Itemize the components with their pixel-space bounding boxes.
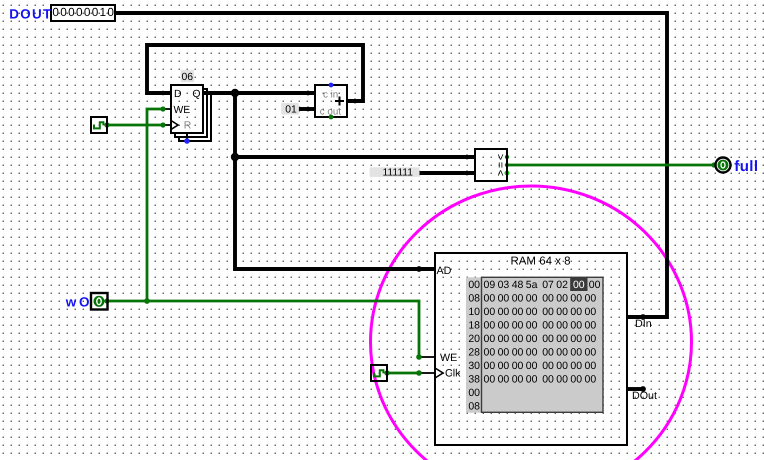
pin dot adder in B: [306, 107, 311, 112]
pin dot RAM AD: [416, 266, 422, 272]
clock C2: [371, 365, 387, 381]
pin dot comparator lt (high): [505, 171, 510, 176]
svg-text:5a: 5a: [526, 279, 538, 291]
svg-text:00: 00: [526, 347, 538, 359]
svg-text:w: w: [65, 295, 77, 310]
svg-text:38: 38: [468, 374, 480, 386]
svg-text:00: 00: [542, 374, 554, 386]
register R1 (write counter): [171, 85, 211, 144]
stub RAM WE: [419, 356, 435, 358]
wire w0 to RAM WE: [107, 301, 419, 357]
svg-text:20: 20: [468, 333, 480, 345]
pin dot comparator A: [465, 155, 470, 160]
svg-text:00: 00: [570, 306, 582, 318]
pin dot full in: [711, 162, 716, 167]
pin dot clock C1 out: [104, 122, 109, 127]
svg-text:00: 00: [498, 306, 510, 318]
svg-text:00: 00: [570, 374, 582, 386]
junction comparator feed: [231, 153, 239, 161]
pin dot register WE in: [160, 106, 165, 111]
svg-text:00: 00: [512, 347, 524, 359]
svg-text:00: 00: [484, 293, 496, 305]
svg-text:DOut: DOut: [632, 390, 657, 402]
adder U2: [315, 83, 347, 120]
svg-text:00: 00: [542, 306, 554, 318]
svg-text:00: 00: [512, 360, 524, 372]
svg-text:00: 00: [585, 333, 597, 345]
svg-text:00: 00: [585, 293, 597, 305]
svg-text:00: 00: [468, 387, 480, 399]
svg-text:00: 00: [556, 360, 568, 372]
input pin w0: [91, 293, 108, 310]
svg-text:01: 01: [285, 104, 297, 115]
svg-text:RAM 64 x 8: RAM 64 x 8: [510, 256, 570, 268]
stub register clock: [163, 124, 171, 126]
svg-text:00: 00: [570, 320, 582, 332]
svg-text:WE: WE: [174, 105, 191, 116]
svg-text:00: 00: [556, 320, 568, 332]
svg-text:00: 00: [484, 306, 496, 318]
constant 01: [281, 103, 299, 115]
svg-text:00: 00: [512, 320, 524, 332]
svg-text:00: 00: [512, 293, 524, 305]
wire w0 branch to register WE: [147, 109, 163, 301]
svg-text:00: 00: [556, 293, 568, 305]
svg-text:00: 00: [556, 333, 568, 345]
pin dot RAM WE in: [416, 354, 422, 360]
svg-text:00: 00: [556, 306, 568, 318]
svg-text:00: 00: [526, 360, 538, 372]
pin dot clock C2 out: [384, 370, 389, 375]
svg-text:00: 00: [498, 347, 510, 359]
pin dot comparator gt: [505, 155, 509, 159]
svg-text:O: O: [79, 295, 90, 310]
svg-text:00: 00: [573, 279, 585, 291]
wire comparator = to full pin: [507, 164, 714, 167]
RAM memory contents table: [466, 277, 603, 412]
svg-text:03: 03: [498, 279, 510, 291]
comparator U3: [475, 149, 507, 181]
svg-text:00: 00: [542, 333, 554, 345]
wire to comparator input A: [235, 155, 475, 159]
svg-text:00: 00: [585, 320, 597, 332]
wire clock C1 to register clock: [107, 124, 163, 127]
stub register WE: [163, 108, 171, 110]
svg-text:WE: WE: [440, 352, 457, 364]
svg-text:28: 28: [468, 347, 480, 359]
junction Q/comparator: [231, 89, 239, 97]
svg-text:00: 00: [498, 320, 510, 332]
svg-text:00: 00: [526, 374, 538, 386]
svg-text:00: 00: [542, 347, 554, 359]
svg-text:00: 00: [512, 374, 524, 386]
svg-text:D: D: [174, 89, 182, 100]
svg-text:00: 00: [526, 293, 538, 305]
svg-text:00: 00: [468, 279, 480, 291]
svg-text:00: 00: [570, 360, 582, 372]
svg-text:30: 30: [468, 360, 480, 372]
pin dot RAM DOut: [640, 386, 646, 392]
svg-text:00: 00: [526, 320, 538, 332]
junction w0/WE branch: [144, 298, 150, 304]
svg-text:48: 48: [512, 279, 524, 291]
svg-text:00: 00: [484, 374, 496, 386]
svg-text:>: >: [494, 154, 506, 160]
svg-text:00: 00: [526, 333, 538, 345]
wire DOUT bus to RAM DIn: [115, 13, 667, 317]
clock C1: [91, 117, 107, 133]
svg-text:10: 10: [468, 306, 480, 318]
svg-text:00: 00: [526, 306, 538, 318]
wire register Q down to RAM AD: [235, 93, 435, 269]
output pin full: [716, 158, 731, 173]
svg-text:00: 00: [589, 279, 601, 291]
svg-text:00: 00: [542, 360, 554, 372]
svg-text:00: 00: [556, 374, 568, 386]
svg-text:AD: AD: [437, 265, 452, 277]
pin dot comparator eq: [505, 163, 509, 167]
pin dot w0 out: [104, 298, 109, 303]
wire adder output feedback to register D: [147, 45, 363, 101]
svg-text:00: 00: [570, 347, 582, 359]
svg-text:07: 07: [542, 279, 554, 291]
svg-text:00: 00: [570, 333, 582, 345]
svg-text:00: 00: [498, 333, 510, 345]
highlight circle: [371, 186, 692, 460]
svg-text:=: =: [494, 162, 506, 168]
svg-text:08: 08: [468, 401, 480, 413]
svg-text:Clk: Clk: [445, 367, 461, 379]
output display DOUT: [51, 5, 115, 21]
svg-text:00: 00: [484, 347, 496, 359]
svg-text:00: 00: [542, 293, 554, 305]
wire constant 111111 to comparator input B: [419, 171, 475, 175]
svg-text:06: 06: [182, 72, 194, 83]
pin dot constant 01: [297, 107, 302, 112]
svg-text:09: 09: [484, 279, 496, 291]
svg-text:18: 18: [468, 320, 480, 332]
svg-text:00: 00: [512, 306, 524, 318]
svg-text:Q: Q: [192, 89, 200, 100]
pin dot RAM Clk in: [416, 370, 422, 376]
pin dot comparator B: [465, 171, 470, 176]
svg-text:00: 00: [570, 293, 582, 305]
svg-text:00: 00: [498, 293, 510, 305]
svg-text:full: full: [734, 158, 758, 175]
value label 06 on register: [181, 70, 194, 82]
svg-text:R: R: [184, 120, 192, 131]
svg-text:00: 00: [542, 320, 554, 332]
svg-text:00: 00: [585, 360, 597, 372]
pin dot adder out: [353, 99, 358, 104]
pin dot register clock in: [160, 122, 165, 127]
svg-text:00: 00: [484, 360, 496, 372]
svg-text:00: 00: [512, 333, 524, 345]
svg-text:00000010: 00000010: [52, 5, 115, 19]
wire RAM DOut stub: [627, 387, 643, 391]
wire clock C2 to RAM Clk: [387, 372, 419, 375]
svg-text:00: 00: [556, 347, 568, 359]
svg-text:111111: 111111: [382, 168, 413, 179]
pin dot register D: [161, 91, 166, 96]
svg-text:00: 00: [498, 374, 510, 386]
pin dot constant 111111: [417, 171, 422, 176]
svg-text:00: 00: [484, 320, 496, 332]
svg-text:00: 00: [484, 333, 496, 345]
constant 111111: [370, 167, 420, 177]
wire register Q to adder input: [203, 91, 315, 95]
RAM U4 64x8: [435, 253, 657, 445]
svg-text:00: 00: [585, 306, 597, 318]
svg-text:DOUT: DOUT: [9, 6, 52, 21]
pin dot adder in A: [306, 91, 311, 96]
svg-text:08: 08: [468, 293, 480, 305]
svg-text:02: 02: [556, 279, 568, 291]
stub RAM Clk: [419, 372, 435, 374]
svg-text:00: 00: [498, 360, 510, 372]
svg-text:c in: c in: [323, 89, 338, 100]
svg-text:<: <: [494, 170, 506, 176]
svg-text:00: 00: [585, 347, 597, 359]
svg-text:00: 00: [585, 374, 597, 386]
wire constant 01 to adder: [299, 107, 315, 111]
svg-text:DIn: DIn: [635, 318, 652, 330]
pin dot RAM DIn: [640, 314, 646, 320]
